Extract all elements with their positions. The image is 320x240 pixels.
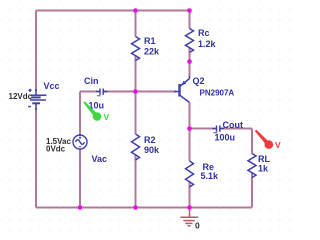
resistor RL [248,154,256,178]
junction Vac bottom [78,205,83,210]
transistor Q2 [174,76,190,103]
svg-text:0: 0 [195,221,200,231]
svg-text:V: V [275,140,281,150]
wire base row Cin to base [104,91,176,93]
wire Vac column lower [79,149,81,208]
wire left rail upper [35,11,37,92]
svg-text:PN2907A: PN2907A [200,89,235,98]
capacitor Cin [96,89,108,96]
svg-text:1k: 1k [258,164,269,174]
junction R2 bottom [133,205,138,210]
probe marker green V [83,101,109,122]
svg-text:RL: RL [258,154,270,164]
resistor Re [186,161,194,187]
svg-text:V: V [104,112,110,122]
junction top R1 [133,8,138,13]
wire Re bottom lead [189,182,191,208]
resistor R1 [132,37,140,61]
wire R1 top lead [135,11,137,37]
capacitor Cout [213,126,225,133]
junction base node [133,89,138,94]
svg-text:1.2k: 1.2k [198,39,217,49]
wire base row left of Cin [80,91,99,93]
wire collector to Cout node [189,103,191,162]
wire R2 bottom lead [135,155,137,208]
wire top rail [36,10,190,12]
wire left rail lower [35,108,37,208]
probe marker red V [255,130,281,150]
junction ground node [187,205,192,210]
svg-text:100u: 100u [215,133,236,143]
wire Vac column upper [79,92,81,136]
svg-text:90k: 90k [144,145,160,155]
battery V1 Vcc [28,89,46,110]
ground 0 [180,208,198,226]
junction collector Cout [187,126,192,131]
junction Rc emitter [187,59,192,64]
svg-text:Q2: Q2 [193,76,205,86]
wire bottom rail [36,207,252,209]
svg-text:Rc: Rc [198,28,210,38]
wire Cout left lead [190,128,215,130]
wire R1-R2 middle [135,55,137,134]
wire RL bottom lead [251,173,253,208]
wire Rc top lead [189,11,191,29]
ac source Vac [73,135,87,149]
resistor R2 [132,134,140,160]
svg-text:Cout: Cout [223,120,244,130]
svg-text:R2: R2 [144,135,156,145]
svg-text:Cin: Cin [84,76,99,86]
svg-text:5.1k: 5.1k [201,171,220,181]
svg-text:22k: 22k [144,47,160,57]
svg-text:0Vdc: 0Vdc [46,145,66,154]
junction top Rc [187,8,192,13]
resistor Rc [186,29,194,53]
svg-text:12Vdc: 12Vdc [9,92,33,101]
svg-text:R1: R1 [144,36,156,46]
wire Rc to emitter [189,47,191,77]
svg-text:Vac: Vac [92,154,108,164]
wire Cout right lead [221,128,252,130]
svg-text:Vcc: Vcc [44,81,60,91]
wire RL top lead [251,129,253,154]
